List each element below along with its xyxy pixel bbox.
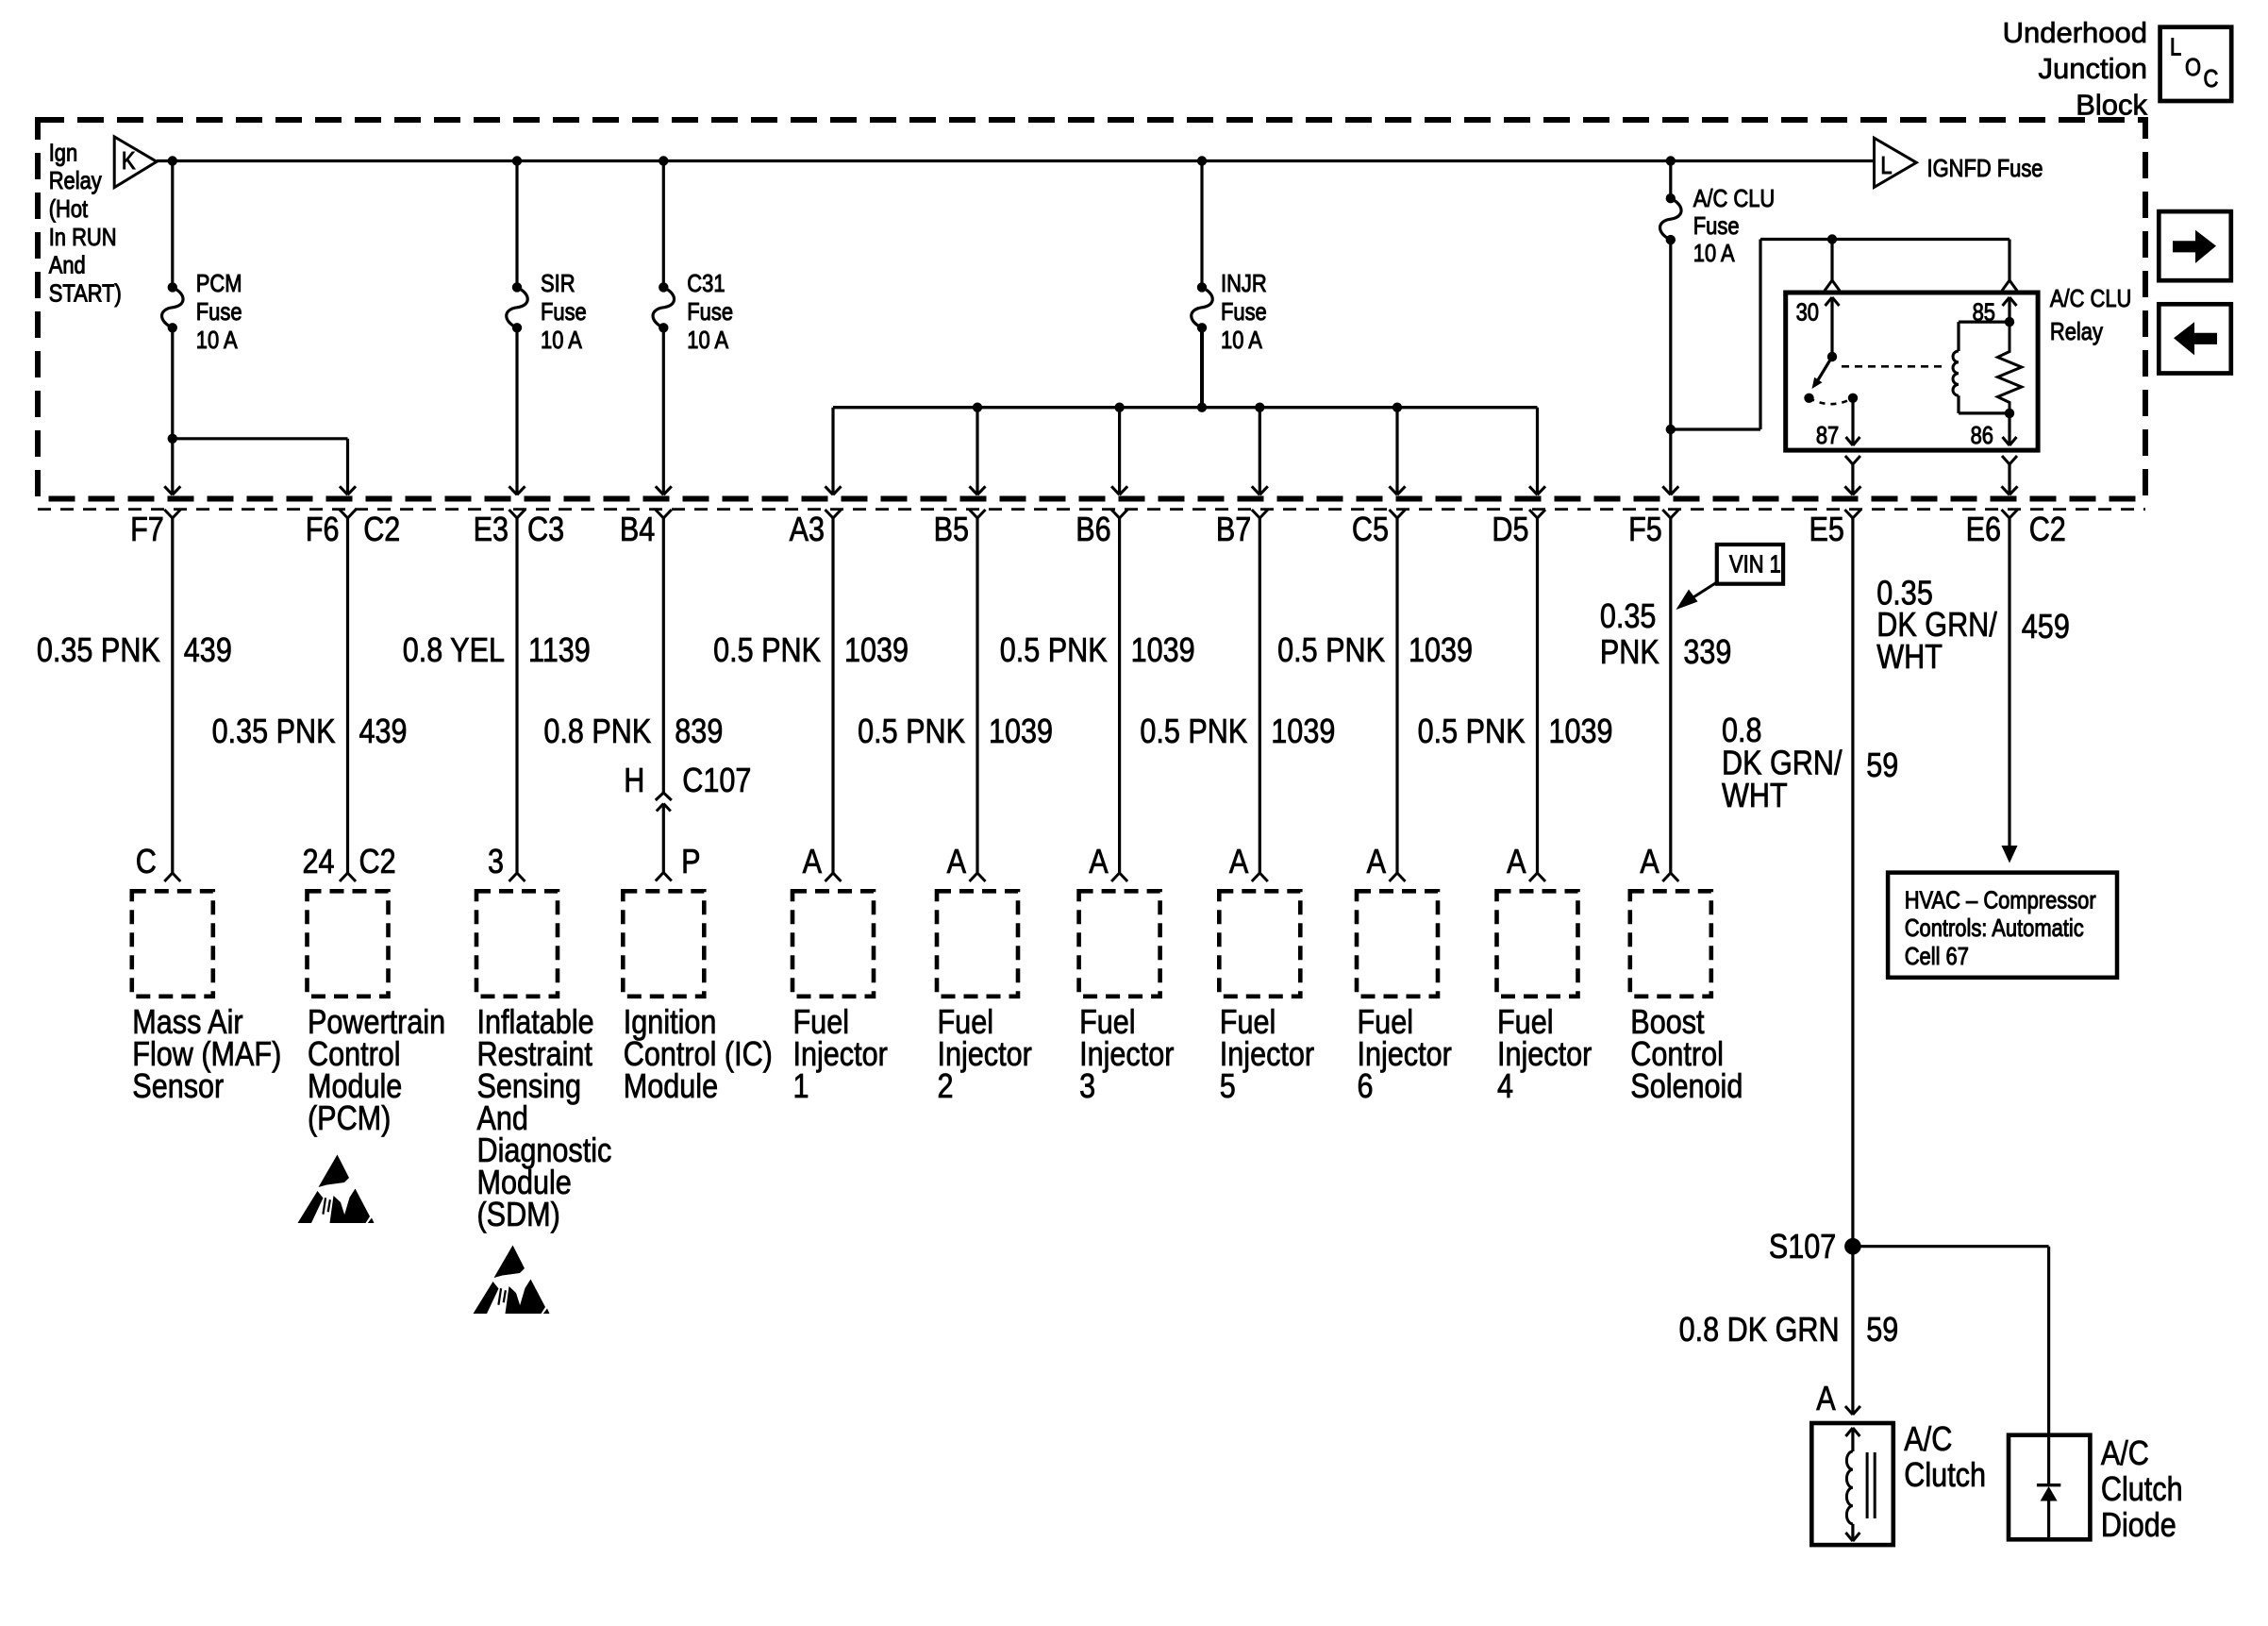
svg-text:START): START) bbox=[49, 280, 122, 308]
svg-text:Controls: Automatic: Controls: Automatic bbox=[1905, 915, 2084, 943]
svg-text:A/C CLU: A/C CLU bbox=[1693, 185, 1775, 212]
svg-text:L: L bbox=[1880, 152, 1892, 179]
svg-text:Fuse: Fuse bbox=[541, 298, 587, 326]
svg-text:C31: C31 bbox=[687, 270, 725, 297]
svg-text:1139: 1139 bbox=[528, 632, 591, 670]
svg-text:C107: C107 bbox=[682, 763, 751, 800]
svg-text:0.35: 0.35 bbox=[1600, 598, 1657, 636]
svg-text:E6: E6 bbox=[1966, 511, 2001, 549]
svg-text:HVAC – Compressor: HVAC – Compressor bbox=[1905, 887, 2096, 914]
svg-text:E5: E5 bbox=[1809, 511, 1843, 549]
svg-text:C: C bbox=[136, 844, 157, 881]
svg-text:Solenoid: Solenoid bbox=[1630, 1068, 1743, 1106]
svg-text:O: O bbox=[2185, 54, 2201, 81]
svg-text:F7: F7 bbox=[130, 511, 164, 549]
svg-text:S107: S107 bbox=[1769, 1229, 1836, 1266]
svg-text:A: A bbox=[803, 844, 823, 881]
svg-text:Fuse: Fuse bbox=[1693, 212, 1740, 240]
svg-text:0.8 YEL: 0.8 YEL bbox=[403, 632, 505, 670]
svg-text:A: A bbox=[1089, 844, 1109, 881]
svg-text:(Hot: (Hot bbox=[49, 195, 89, 223]
svg-text:0.5 PNK: 0.5 PNK bbox=[1140, 713, 1247, 751]
svg-text:A: A bbox=[1816, 1381, 1836, 1418]
svg-text:Junction: Junction bbox=[2039, 52, 2147, 85]
svg-text:1039: 1039 bbox=[1549, 713, 1613, 751]
svg-text:B7: B7 bbox=[1216, 511, 1251, 549]
svg-text:C2: C2 bbox=[2029, 511, 2066, 549]
svg-text:6: 6 bbox=[1358, 1068, 1374, 1106]
svg-text:Cell 67: Cell 67 bbox=[1905, 943, 1969, 970]
svg-text:339: 339 bbox=[1683, 634, 1731, 672]
svg-text:And: And bbox=[49, 252, 86, 279]
svg-text:4: 4 bbox=[1497, 1068, 1513, 1106]
svg-text:59: 59 bbox=[1866, 1312, 1898, 1349]
svg-text:1039: 1039 bbox=[1409, 632, 1473, 670]
svg-text:PNK: PNK bbox=[1600, 634, 1659, 672]
svg-text:(PCM): (PCM) bbox=[308, 1100, 391, 1138]
svg-text:1039: 1039 bbox=[844, 632, 909, 670]
svg-text:Block: Block bbox=[2076, 88, 2147, 121]
svg-text:1039: 1039 bbox=[1271, 713, 1335, 751]
svg-text:87: 87 bbox=[1816, 422, 1839, 449]
svg-text:3: 3 bbox=[488, 844, 504, 881]
svg-text:59: 59 bbox=[1866, 747, 1898, 785]
svg-text:F6: F6 bbox=[306, 511, 340, 549]
svg-text:IGNFD Fuse: IGNFD Fuse bbox=[1927, 155, 2043, 182]
svg-text:K: K bbox=[122, 148, 136, 176]
svg-text:E3: E3 bbox=[474, 511, 509, 549]
svg-text:Sensor: Sensor bbox=[132, 1068, 224, 1106]
svg-text:30: 30 bbox=[1796, 299, 1819, 327]
svg-text:Ign: Ign bbox=[49, 140, 77, 167]
svg-text:0.35 PNK: 0.35 PNK bbox=[212, 713, 336, 751]
svg-text:A: A bbox=[947, 844, 967, 881]
svg-text:Fuse: Fuse bbox=[687, 298, 733, 326]
svg-text:Diode: Diode bbox=[2101, 1507, 2176, 1545]
svg-text:A/C: A/C bbox=[1904, 1421, 1952, 1459]
svg-text:85: 85 bbox=[1973, 299, 1995, 327]
svg-text:0.5 PNK: 0.5 PNK bbox=[1000, 632, 1108, 670]
svg-text:Clutch: Clutch bbox=[1904, 1457, 1986, 1495]
svg-text:WHT: WHT bbox=[1722, 778, 1788, 815]
svg-text:1: 1 bbox=[793, 1068, 809, 1106]
svg-text:D5: D5 bbox=[1492, 511, 1528, 549]
svg-text:3: 3 bbox=[1079, 1068, 1095, 1106]
svg-text:F5: F5 bbox=[1628, 511, 1662, 549]
svg-text:(SDM): (SDM) bbox=[477, 1197, 560, 1234]
svg-text:L: L bbox=[2170, 34, 2181, 61]
svg-text:0.5 PNK: 0.5 PNK bbox=[713, 632, 821, 670]
svg-text:839: 839 bbox=[675, 713, 723, 751]
svg-text:A/C CLU: A/C CLU bbox=[2050, 285, 2131, 312]
svg-text:A: A bbox=[1229, 844, 1249, 881]
svg-text:Relay: Relay bbox=[2050, 318, 2103, 345]
svg-text:Fuse: Fuse bbox=[1221, 298, 1267, 326]
svg-text:B5: B5 bbox=[934, 511, 969, 549]
svg-text:10 A: 10 A bbox=[1693, 240, 1735, 267]
svg-text:10 A: 10 A bbox=[541, 327, 582, 354]
svg-text:A: A bbox=[1640, 844, 1659, 881]
svg-text:Relay: Relay bbox=[49, 168, 102, 195]
svg-text:VIN 1: VIN 1 bbox=[1729, 551, 1781, 578]
svg-text:439: 439 bbox=[184, 632, 232, 670]
svg-text:WHT: WHT bbox=[1876, 639, 1943, 677]
svg-text:A3: A3 bbox=[790, 511, 825, 549]
svg-text:C5: C5 bbox=[1352, 511, 1389, 549]
svg-text:PCM: PCM bbox=[196, 270, 242, 297]
svg-text:H: H bbox=[624, 763, 644, 800]
svg-text:C: C bbox=[2204, 65, 2219, 92]
svg-text:C3: C3 bbox=[527, 511, 564, 549]
svg-text:10 A: 10 A bbox=[687, 327, 728, 354]
svg-text:459: 459 bbox=[2022, 609, 2070, 646]
svg-text:SIR: SIR bbox=[541, 270, 575, 297]
svg-text:0.8 PNK: 0.8 PNK bbox=[543, 713, 651, 751]
svg-text:24: 24 bbox=[302, 844, 334, 881]
svg-text:1039: 1039 bbox=[1131, 632, 1195, 670]
svg-text:A: A bbox=[1507, 844, 1526, 881]
svg-text:Underhood: Underhood bbox=[2003, 16, 2147, 49]
svg-text:0.35 PNK: 0.35 PNK bbox=[37, 632, 160, 670]
svg-text:Clutch: Clutch bbox=[2101, 1471, 2183, 1509]
svg-text:439: 439 bbox=[359, 713, 408, 751]
svg-text:1039: 1039 bbox=[989, 713, 1053, 751]
svg-text:0.8 DK GRN: 0.8 DK GRN bbox=[1679, 1312, 1840, 1349]
svg-text:0.5 PNK: 0.5 PNK bbox=[1277, 632, 1385, 670]
svg-text:10 A: 10 A bbox=[1221, 327, 1262, 354]
svg-text:P: P bbox=[681, 844, 700, 881]
svg-text:INJR: INJR bbox=[1221, 270, 1267, 297]
svg-text:B6: B6 bbox=[1076, 511, 1110, 549]
svg-text:B4: B4 bbox=[620, 511, 655, 549]
svg-text:0.5 PNK: 0.5 PNK bbox=[858, 713, 965, 751]
svg-text:5: 5 bbox=[1220, 1068, 1236, 1106]
svg-text:Module: Module bbox=[624, 1068, 718, 1106]
svg-text:C2: C2 bbox=[363, 511, 400, 549]
svg-text:A/C: A/C bbox=[2101, 1435, 2149, 1473]
svg-text:In RUN: In RUN bbox=[49, 224, 117, 251]
svg-text:Fuse: Fuse bbox=[196, 298, 242, 326]
svg-text:C2: C2 bbox=[359, 844, 396, 881]
svg-text:A: A bbox=[1367, 844, 1387, 881]
svg-text:10 A: 10 A bbox=[196, 327, 238, 354]
svg-text:2: 2 bbox=[938, 1068, 954, 1106]
svg-text:0.5 PNK: 0.5 PNK bbox=[1418, 713, 1526, 751]
svg-text:86: 86 bbox=[1971, 422, 1993, 449]
